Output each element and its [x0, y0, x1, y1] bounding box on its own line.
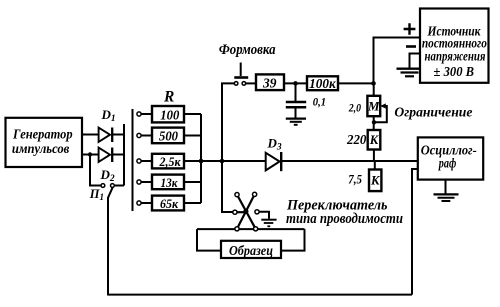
svg-text:Ограничение: Ограничение	[394, 105, 472, 120]
resistor 7,5k	[369, 170, 381, 192]
conductivity switch contact top-left	[235, 193, 239, 197]
junction: source node	[371, 81, 376, 86]
wire: node down to potentiometer	[373, 83, 375, 96]
wire: right bus vertical	[200, 114, 202, 203]
svg-text:напряжения: напряжения	[425, 48, 486, 63]
resistor R 100	[152, 106, 184, 123]
switch P1 left contact	[101, 184, 105, 188]
wire: bottom rail up to oscilloscope	[412, 169, 418, 295]
svg-text:500: 500	[159, 130, 178, 145]
label plus	[404, 23, 416, 35]
switch P1 right contact	[111, 184, 115, 188]
label D1	[101, 107, 116, 124]
sample box Obrazec	[221, 241, 281, 258]
potentiometer 2,0M limiter	[367, 96, 380, 116]
resistor R 13k	[152, 175, 184, 190]
wire: resistor 65k to right bus	[184, 202, 201, 204]
junction: generator output node	[88, 152, 92, 156]
resistor 39	[256, 74, 284, 91]
wire: D1 to diode bus	[112, 134, 125, 136]
label D3	[267, 136, 282, 153]
ground (oscilloscope)	[434, 194, 459, 201]
svg-text:импульсов: импульсов	[12, 142, 70, 157]
svg-text:М: М	[367, 99, 380, 114]
wire: generator node down to switch P1	[90, 155, 101, 186]
wire: contact3 to resistor 2.5k	[141, 160, 152, 162]
formovka push button	[234, 63, 248, 78]
wire: resistor 13k to right bus	[184, 181, 201, 183]
svg-text:К: К	[370, 174, 381, 188]
selector contact 4	[137, 180, 141, 184]
pulse generator box	[6, 118, 83, 167]
wire: selector bus	[132, 109, 134, 211]
resistor 220k	[368, 130, 381, 150]
label minus	[406, 45, 416, 48]
junction: wiper to bottom	[372, 120, 376, 124]
conductivity switch contact mid-right	[255, 210, 259, 214]
resistor R 500	[152, 128, 184, 145]
conductivity switch contact top-right	[253, 192, 257, 196]
wire: 220k to main line	[373, 150, 375, 162]
ground (source)	[397, 69, 423, 77]
wire: contact4 to resistor 13k	[141, 181, 152, 183]
wire: main line to D3	[201, 160, 266, 162]
label Perekljuchatel	[286, 198, 388, 214]
wire: resistor 39 to 100k	[284, 82, 307, 84]
svg-text:R: R	[163, 88, 174, 105]
wire: diode bus vertical	[123, 124, 125, 186]
svg-text:13к: 13к	[161, 175, 178, 190]
ground (capacitor)	[286, 119, 306, 125]
svg-text:П1: П1	[89, 187, 104, 202]
wire: generator to D1	[82, 134, 99, 136]
formovka switch right contact	[242, 82, 246, 86]
selector contact 2	[137, 133, 141, 137]
capacitor 0,1	[286, 102, 306, 118]
junction: switch crossing	[243, 209, 248, 214]
svg-text:К: К	[369, 133, 380, 147]
svg-text:D3: D3	[267, 136, 282, 153]
wire: main line to 7.5k	[374, 161, 376, 170]
junction: right bus to main line	[199, 159, 204, 164]
potentiometer wiper arm	[374, 103, 387, 122]
wire: bottom rail	[107, 294, 412, 296]
svg-text:7,5: 7,5	[348, 173, 362, 187]
svg-text:раф: раф	[438, 156, 456, 171]
resistor 100k	[307, 76, 338, 91]
svg-text:65к: 65к	[160, 196, 178, 211]
wire: contact2 to resistor 500	[141, 135, 152, 137]
label Ogranichenie	[394, 105, 472, 120]
label 7,5	[348, 173, 362, 187]
wire: node up to source plus	[374, 38, 421, 84]
wire: potentiometer to 220k	[373, 116, 375, 130]
conductivity switch crossing wire TL-BR	[237, 195, 256, 229]
resistor R 65k	[152, 196, 184, 211]
svg-text:100к: 100к	[309, 76, 337, 91]
svg-text:D2: D2	[100, 167, 115, 184]
selector contact 1	[137, 112, 141, 116]
DC voltage source box	[420, 9, 489, 83]
conductivity switch contact bottom-left	[235, 227, 239, 231]
junction: capacitor node	[293, 81, 298, 86]
wire: sample loop left	[197, 229, 221, 251]
svg-text:± 300 В: ± 300 В	[434, 64, 475, 79]
diode D2	[99, 148, 113, 163]
wire: 100k to source node	[338, 82, 374, 84]
wire: resistor 2.5k to right bus	[184, 160, 201, 162]
wire: formovka switch to resistor 39	[246, 82, 256, 84]
conductivity switch crossing wire TR-BL	[237, 194, 255, 228]
wire: generator to D2	[82, 154, 99, 156]
diode D3	[266, 152, 282, 171]
conductivity switch contact bottom-right	[254, 227, 258, 231]
label 220	[346, 132, 367, 147]
label Formovka	[219, 42, 276, 58]
svg-text:2,0: 2,0	[348, 101, 361, 115]
wire: mid-right contact to ground	[259, 212, 269, 219]
selector contact 5	[137, 201, 141, 205]
svg-text:D1: D1	[101, 107, 116, 124]
svg-text:100: 100	[160, 108, 179, 123]
wire: contact5 to resistor 65k	[141, 202, 152, 204]
wire: source minus to ground	[410, 54, 421, 68]
wire: contact1 to resistor 100	[141, 113, 152, 115]
oscilloscope box	[418, 137, 483, 179]
wire: formovka riser	[222, 83, 234, 161]
wire: capacitor stem	[295, 83, 297, 101]
wire: sample loop right	[281, 229, 305, 251]
formovka switch left contact	[234, 82, 238, 86]
svg-text:39: 39	[262, 77, 276, 92]
wire: crossing to mid-left contact	[235, 211, 246, 213]
svg-text:Образец: Образец	[229, 243, 273, 258]
label P1	[89, 187, 104, 202]
label R	[163, 88, 174, 105]
wire: sample loop top	[197, 228, 305, 230]
wire: D2 to diode bus	[112, 154, 125, 156]
wire: oscilloscope ground stem	[445, 180, 447, 195]
wire: P1 right contact to diode bus	[114, 185, 124, 187]
svg-text:Формовка: Формовка	[219, 42, 276, 58]
switch P1 blade	[108, 187, 113, 198]
label 0,1	[313, 94, 326, 108]
conductivity switch contact mid-left	[233, 210, 237, 214]
svg-text:Генератор: Генератор	[12, 127, 72, 142]
svg-text:типа проводимости: типа проводимости	[286, 211, 403, 227]
selector contact 3	[137, 159, 141, 163]
svg-text:2,5к: 2,5к	[159, 154, 181, 169]
wire: D3 to oscilloscope	[281, 160, 418, 162]
resistor R 2,5k	[152, 154, 184, 169]
label tipa provodimosti	[286, 211, 403, 227]
wire: main line down to conductivity switch	[222, 161, 233, 212]
junction: formovka branch node	[220, 159, 225, 164]
wire: resistor 500 to right bus	[184, 135, 201, 137]
diode D1	[99, 128, 113, 143]
label D2	[100, 167, 115, 184]
wire: resistor 100 to right bus	[184, 113, 201, 115]
ground (conductivity switch)	[261, 220, 276, 227]
svg-text:0,1: 0,1	[313, 94, 326, 108]
svg-text:220: 220	[346, 132, 367, 147]
label 2,0	[348, 101, 361, 115]
wire: P1 down to bottom rail	[107, 197, 109, 295]
